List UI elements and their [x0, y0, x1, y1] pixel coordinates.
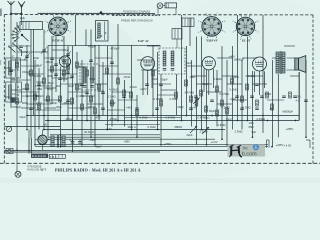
- wire v x72: [72, 46, 74, 152]
- svg-text:2.2MΩ: 2.2MΩ: [214, 77, 222, 81]
- wire v x44: [43, 30, 45, 130]
- svg-text:4 Ω: 4 Ω: [296, 99, 300, 103]
- inductor L1 aerial coil: [20, 18, 43, 30]
- label EL41: [241, 39, 251, 43]
- svg-text:50pF: 50pF: [162, 78, 168, 82]
- label EAF42: [137, 39, 149, 43]
- wire v x33.5: [33, 30, 35, 116]
- svg-text:5.2MΩ: 5.2MΩ: [222, 106, 230, 110]
- svg-text:470pF: 470pF: [110, 117, 118, 121]
- svg-text:ire: ire: [243, 146, 249, 151]
- wire v x48: [47, 45, 49, 137]
- svg-text:4700pF: 4700pF: [111, 47, 120, 51]
- inductor IFT2 secondary: [171, 51, 174, 66]
- svg-text:L2: L2: [12, 68, 15, 72]
- transformer IFT2 dashed box: [159, 48, 185, 74]
- svg-text:46.4VμF: 46.4VμF: [84, 130, 95, 134]
- wire antenna feed: [10, 13, 22, 14]
- svg-text:47k: 47k: [12, 78, 17, 82]
- label title: [55, 168, 141, 173]
- wire v x191: [191, 60, 193, 127]
- svg-text:+14V: +14V: [230, 97, 237, 101]
- wire v x152 pin: [151, 71, 153, 89]
- wire v x232: [232, 46, 234, 130]
- logo watermark: [228, 144, 266, 157]
- svg-text:ECH 41: ECH 41: [51, 39, 64, 43]
- svg-text:140Ω: 140Ω: [265, 92, 272, 96]
- wire v x21b: [21, 50, 23, 56]
- wire v x201: [201, 37, 203, 130]
- inductor L2b RF coil box: [6, 82, 21, 102]
- capacitor CV2 oscillator gang: [65, 51, 71, 58]
- svg-text:5μF: 5μF: [252, 130, 257, 134]
- wire v x237: [237, 15, 239, 121]
- wire v x306: [305, 60, 307, 137]
- svg-text:POSIZIONI COMANDI: POSIZIONI COMANDI: [123, 9, 150, 13]
- wire bus AVC y115.5: [27, 115, 299, 117]
- wire v x242: [241, 60, 243, 130]
- svg-text:1MΩ: 1MΩ: [47, 74, 53, 78]
- potentiometer P1 volume: [193, 98, 200, 107]
- svg-text:25pF: 25pF: [36, 64, 42, 68]
- wire v x75b: [75, 15, 77, 46]
- tube socket V4 EL41 top view: [232, 14, 259, 41]
- svg-text:0.1MΩ: 0.1MΩ: [33, 74, 41, 78]
- wire v x222: [221, 46, 223, 139]
- wire v x209 pin: [208, 70, 210, 95]
- svg-text:0.1MΩ: 0.1MΩ: [108, 95, 116, 99]
- label EBF41: [206, 39, 217, 43]
- svg-text:100pF: 100pF: [88, 105, 96, 109]
- capacitor IFT1 trimmers: [83, 86, 94, 88]
- svg-text:160pF: 160pF: [78, 65, 86, 69]
- wire v x99: [98, 45, 100, 120]
- wire v x213 pin: [213, 69, 215, 88]
- transformer T4 primary: [51, 136, 54, 147]
- svg-text:50pF: 50pF: [209, 109, 215, 113]
- component dark block x11 y98: [10, 97, 15, 102]
- wire v x35: [34, 60, 36, 145]
- svg-text:1MΩ: 1MΩ: [190, 75, 196, 79]
- wire interconnect stubs: [5, 46, 299, 110]
- svg-text:4Ω: 4Ω: [270, 107, 274, 111]
- wire v x91: [90, 30, 92, 138]
- svg-text:5.1MΩ: 5.1MΩ: [230, 88, 238, 92]
- resistor cluster various: [16, 62, 292, 116]
- wire bus y144.7: [35, 144, 268, 146]
- svg-text:10pF: 10pF: [186, 61, 192, 65]
- wire v x157: [157, 52, 159, 130]
- wire antenna lead down: [11, 14, 22, 47]
- wire v x103: [102, 62, 104, 116]
- wire v x227: [226, 60, 228, 145]
- svg-text:EL 41: EL 41: [241, 39, 251, 43]
- transformer IFT1 dashed box: [80, 64, 99, 90]
- wire v x161: [160, 74, 162, 145]
- svg-text:3MΩ A: 3MΩ A: [128, 125, 136, 129]
- wire v x181: [181, 15, 183, 121]
- tube V4 EL41 envelope: [253, 57, 267, 71]
- svg-text:68Ω: 68Ω: [249, 125, 254, 129]
- wire dial scale: [38, 13, 155, 15]
- svg-text:+2.2V: +2.2V: [140, 87, 147, 91]
- inductor L3 oscillator coil: [96, 21, 109, 42]
- svg-text:(A): (A): [44, 123, 48, 127]
- wire bus y126.5 left: [4, 126, 60, 128]
- wire v x124: [124, 80, 126, 127]
- svg-text:47Ω: 47Ω: [96, 116, 101, 120]
- svg-text:56pF: 56pF: [152, 77, 158, 81]
- svg-text:0.1MΩ: 0.1MΩ: [140, 116, 148, 120]
- wire v x77: [76, 52, 78, 121]
- wire mains y152: [4, 151, 160, 153]
- transformer T4 core: [57, 135, 58, 148]
- wire v x147 pin: [147, 71, 149, 96]
- wire v x60: [60, 67, 62, 147]
- svg-text:T.M.A.: T.M.A.: [50, 155, 58, 159]
- svg-text:4700pF: 4700pF: [12, 105, 21, 109]
- wire v x56: [55, 36, 57, 92]
- inductor IFT1 secondary: [91, 67, 94, 83]
- svg-text:2MΩ: 2MΩ: [64, 101, 70, 105]
- potentiometer P3 AVC arrow: [190, 126, 197, 133]
- svg-text:13Ω: 13Ω: [249, 121, 254, 125]
- svg-text:13Ω: 13Ω: [296, 95, 301, 99]
- scan artifact left edge: [0, 9, 2, 66]
- transformer T4 secondary: [62, 136, 65, 147]
- svg-text:100pF: 100pF: [46, 60, 54, 64]
- svg-text:40pF: 40pF: [63, 48, 69, 52]
- inductor L5 coupling coil: [182, 18, 194, 27]
- svg-text:+245V: +245V: [276, 143, 284, 147]
- wire v x264 pin: [264, 71, 266, 88]
- svg-text:4.15kΩ: 4.15kΩ: [109, 88, 118, 92]
- svg-text:AVVOLGIM. RETE: AVVOLGIM. RETE: [27, 168, 47, 171]
- svg-text:+85V: +85V: [124, 140, 131, 144]
- wire chassis dashed border top: [4, 14, 313, 16]
- svg-text:PRESE PER GIRADISCHI: PRESE PER GIRADISCHI: [121, 18, 153, 22]
- svg-text:22kΩ: 22kΩ: [98, 89, 104, 93]
- svg-text:PHILIPS RADIO - Mod. HI 261: PHILIPS RADIO - Mod. HI 261 A e HI 261 A: [55, 168, 141, 173]
- svg-text:2.2MΩ: 2.2MΩ: [235, 130, 243, 134]
- inductor L2a RF coil box: [6, 58, 20, 78]
- transformer T3 output: [276, 51, 285, 74]
- wire v x299: [298, 72, 300, 121]
- wire v x112: [111, 46, 113, 127]
- potentiometer P2 tone: [6, 126, 12, 131]
- label prese per giradischi: [121, 18, 153, 22]
- wire v x86b: [85, 30, 87, 47]
- label stamp dark: [31, 154, 48, 159]
- svg-text:50pF: 50pF: [47, 87, 53, 91]
- wire v x190: [189, 18, 191, 46]
- wire mains y150.4: [4, 149, 230, 151]
- svg-text:68000pF: 68000pF: [283, 110, 294, 114]
- tube socket V3 EBF41 top view: [198, 13, 226, 41]
- svg-text:+265V: +265V: [286, 127, 294, 131]
- inductor IFT2 primary: [163, 51, 166, 66]
- wire v x272: [272, 60, 274, 147]
- wire speaker leads: [287, 58, 295, 70]
- svg-text:4.7kΩ: 4.7kΩ: [130, 85, 137, 89]
- svg-text:1MΩ: 1MΩ: [37, 87, 43, 91]
- svg-text:150pF: 150pF: [22, 70, 30, 74]
- svg-text:EAF 42: EAF 42: [137, 39, 149, 43]
- svg-text:50μF: 50μF: [96, 145, 103, 149]
- label terminal strip TMA: [49, 154, 65, 158]
- svg-text:L3: L3: [12, 92, 15, 96]
- speaker LS1: [295, 56, 306, 73]
- svg-text:25pF: 25pF: [48, 81, 54, 85]
- svg-text:b.com: b.com: [242, 152, 257, 158]
- junction dots: [16, 115, 307, 152]
- svg-text:22kΩ: 22kΩ: [233, 75, 239, 79]
- wire bus y146.7: [35, 146, 268, 148]
- wire v x196: [196, 37, 198, 145]
- svg-text:30pF: 30pF: [110, 101, 116, 105]
- capacitor CV1 tuning gang: [24, 47, 47, 60]
- wire bus y117.5 short: [125, 117, 182, 119]
- svg-text:2.04kΩ: 2.04kΩ: [257, 117, 266, 121]
- wire v x107: [107, 46, 109, 130]
- svg-text:200pF: 200pF: [22, 87, 30, 91]
- svg-text:EBF41: EBF41: [206, 39, 217, 43]
- wire v x95: [94, 45, 96, 144]
- wire v x131: [131, 45, 133, 129]
- switch S1 band selector: [12, 26, 29, 42]
- svg-text:22μF: 22μF: [187, 133, 194, 137]
- wire chassis dashed border right: [312, 15, 314, 164]
- wire bus y124.5: [105, 124, 160, 126]
- tube socket V1 ECH41 top view: [45, 14, 72, 41]
- wire v x137: [136, 95, 138, 137]
- svg-text:30pF: 30pF: [68, 84, 74, 88]
- capacitor C50 C51 electrolytics: [71, 137, 82, 143]
- wire v x206: [206, 70, 208, 145]
- wire v x252: [252, 71, 254, 137]
- capacitor IFT2 trimmers: [163, 69, 175, 71]
- wire v x68: [67, 46, 69, 121]
- svg-text:16000pF: 16000pF: [234, 58, 245, 62]
- svg-text:50pF: 50pF: [203, 82, 209, 86]
- svg-text:470pF: 470pF: [50, 101, 58, 105]
- svg-text:† 4.5V: † 4.5V: [284, 144, 292, 148]
- svg-text:220pF: 220pF: [36, 94, 44, 98]
- label title mark: [41, 168, 43, 172]
- svg-text:A.T.: A.T.: [70, 138, 75, 142]
- label ECH41: [51, 39, 64, 43]
- svg-text:+2.2V: +2.2V: [211, 140, 218, 144]
- svg-text:0.27MΩ: 0.27MΩ: [166, 116, 175, 120]
- tube V1 ECH41 envelope: [59, 56, 70, 67]
- svg-text:47kΩ: 47kΩ: [36, 80, 42, 84]
- label posizioni comandi: [123, 9, 150, 13]
- svg-text:+1.4V: +1.4V: [190, 106, 197, 110]
- wire rectifier leads: [35, 130, 50, 151]
- antenna AN1: [8, 1, 15, 14]
- svg-text:64pF: 64pF: [20, 115, 26, 119]
- svg-text:0.1MΩ: 0.1MΩ: [170, 97, 178, 101]
- svg-text:100Ω: 100Ω: [226, 118, 233, 122]
- svg-text:410pF: 410pF: [66, 117, 74, 121]
- inductor IFT1 primary: [83, 67, 86, 83]
- wire v x118: [117, 24, 119, 121]
- wire v x153: [152, 45, 154, 115]
- svg-text:68MΩ: 68MΩ: [175, 125, 182, 129]
- capacitor cluster various: [9, 46, 308, 110]
- svg-text:0.01MΩ: 0.01MΩ: [246, 74, 255, 78]
- svg-text:2kΩ: 2kΩ: [56, 84, 61, 88]
- svg-text:+40V: +40V: [126, 106, 133, 110]
- jack J1 giradischi: [157, 3, 176, 15]
- wire v x186: [186, 46, 188, 116]
- svg-text:25μF: 25μF: [90, 138, 97, 142]
- svg-text:0.1MΩ: 0.1MΩ: [148, 125, 156, 129]
- wire mains cable pair: [29, 130, 31, 154]
- wire v x204 pin: [203, 69, 205, 92]
- wire v x247: [247, 37, 249, 121]
- svg-text:47kΩ: 47kΩ: [124, 75, 130, 79]
- wire v x143 pin: [142, 71, 144, 96]
- svg-text:S.A.F.A.R.: S.A.F.A.R.: [32, 154, 47, 158]
- tube V3 EBF41 envelope: [202, 57, 215, 70]
- wire grid line y45.3: [48, 44, 160, 46]
- wire v x17 osc: [16, 22, 18, 150]
- wire v x255 pin: [254, 71, 256, 92]
- wire v x278: [277, 74, 279, 137]
- wire heater y137.2: [48, 136, 160, 138]
- wire v x263: [262, 15, 264, 133]
- svg-text:1.6MΩ: 1.6MΩ: [218, 123, 226, 127]
- svg-text:0.47MΩ: 0.47MΩ: [185, 91, 194, 95]
- wire chassis dashed border left: [3, 15, 5, 164]
- wire output corner bracket: [267, 140, 311, 148]
- svg-text:1MΩ: 1MΩ: [36, 101, 42, 105]
- wire bus HT y120.5: [45, 72, 299, 121]
- wire v x259 pin: [259, 71, 261, 95]
- svg-text:0.1MΩ: 0.1MΩ: [243, 106, 251, 110]
- wire v x82: [81, 60, 83, 145]
- wire chassis dashed border bottom: [0, 162, 320, 164]
- wire heater y139.2: [48, 138, 215, 140]
- svg-text:+259V: +259V: [164, 142, 172, 146]
- svg-text:55pF: 55pF: [90, 77, 96, 81]
- tube V5 rectifier socket: [38, 135, 47, 145]
- svg-text:0.18MΩ: 0.18MΩ: [154, 97, 163, 101]
- wire v x31: [30, 30, 32, 139]
- svg-text:1kΩ: 1kΩ: [205, 116, 210, 120]
- wire pilot lead: [16, 152, 18, 171]
- wire v x64: [63, 36, 65, 82]
- wire v x176: [176, 74, 178, 116]
- label attenzione: [27, 166, 47, 172]
- fuse F1 box: [6, 149, 13, 154]
- svg-text:2.2MΩ: 2.2MΩ: [200, 130, 208, 134]
- value labels: [12, 45, 301, 149]
- svg-text:4.7Ω: 4.7Ω: [22, 50, 28, 54]
- tube V2 EAF42 envelope: [141, 57, 155, 71]
- wire v x11: [10, 46, 12, 108]
- potentiometer P4 arrow: [202, 127, 209, 134]
- wire v x39: [38, 68, 40, 130]
- svg-text:3-30p: 3-30p: [22, 94, 29, 98]
- svg-text:40pF: 40pF: [56, 105, 62, 109]
- wire v x217: [216, 70, 218, 127]
- wire v x27: [26, 45, 28, 130]
- wire v x52: [51, 36, 53, 104]
- wire v x87: [86, 66, 88, 121]
- antenna AN2 earth arrow: [18, 2, 25, 14]
- lamp pilot: [15, 171, 21, 177]
- wire bus y129.5: [43, 129, 225, 131]
- svg-text:0.1MΩ: 0.1MΩ: [76, 94, 84, 98]
- switch S1 lower contacts: [8, 43, 21, 53]
- svg-text:50pF: 50pF: [33, 56, 39, 60]
- svg-text:25pF: 25pF: [178, 105, 184, 109]
- wire heavy dash row: [112, 14, 160, 16]
- inductor L4 padder box: [172, 29, 182, 49]
- svg-text:50pF: 50pF: [62, 77, 68, 81]
- marker dial pointer: [99, 11, 103, 14]
- svg-text:0.27MΩ: 0.27MΩ: [220, 92, 229, 96]
- svg-text:500k: 500k: [22, 101, 28, 105]
- wire bus y134.8: [50, 134, 160, 136]
- svg-text:470pF: 470pF: [88, 45, 96, 49]
